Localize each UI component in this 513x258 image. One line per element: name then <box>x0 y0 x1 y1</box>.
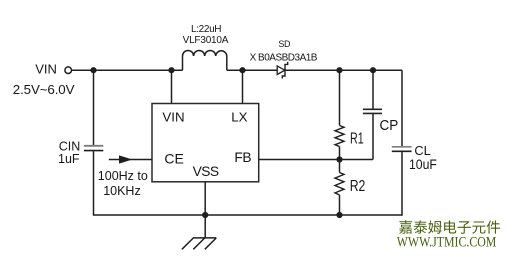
svg-text:SD: SD <box>278 39 291 49</box>
wire bottom rail <box>93 214 402 216</box>
diode SD schottky cathode bar <box>282 62 287 79</box>
svg-text:FB: FB <box>234 150 251 165</box>
junction FB node <box>336 156 342 162</box>
wire CP top lead <box>372 70 374 109</box>
wire left rail down to CIN <box>93 70 95 145</box>
junction CP tap <box>370 67 376 73</box>
inductor L 22uH <box>183 50 227 70</box>
svg-text:1uF: 1uF <box>58 152 80 166</box>
svg-text:R2: R2 <box>350 177 366 195</box>
wire top rail from VIN terminal to inductor <box>72 69 183 71</box>
svg-text:VIN: VIN <box>162 110 184 125</box>
svg-text:10KHz: 10KHz <box>103 184 141 198</box>
svg-text:2.5V~6.0V: 2.5V~6.0V <box>13 82 75 97</box>
wire inductor to diode anode <box>227 69 277 71</box>
svg-text:10uF: 10uF <box>409 156 437 172</box>
wire CE input <box>109 159 152 161</box>
resistor R1 <box>335 126 344 147</box>
wire FB to divider node <box>259 159 373 161</box>
wire IC VIN pin <box>171 70 173 103</box>
wire R2 bottom lead <box>339 195 341 215</box>
wire R1 top lead <box>339 70 341 125</box>
svg-text:LX: LX <box>231 110 247 125</box>
diode SD anode triangle <box>277 66 285 75</box>
svg-text:WWW.JTMIC.COM: WWW.JTMIC.COM <box>397 233 497 250</box>
junction VSS bottom rail <box>202 212 208 218</box>
wire CIN to bottom rail <box>93 151 95 215</box>
capacitor CP plates <box>363 109 382 113</box>
junction IC VIN tap <box>168 67 174 73</box>
wire R1 bottom lead <box>339 147 341 173</box>
ground <box>182 238 216 249</box>
svg-text:R1: R1 <box>350 129 364 146</box>
wire diode cathode to output corner <box>285 69 402 71</box>
arrow CE signal <box>119 155 133 163</box>
capacitor CL top plate <box>392 146 412 148</box>
resistor R2 <box>335 173 344 196</box>
wire CP bottom lead <box>372 114 374 160</box>
wire CL to bottom rail <box>401 152 403 216</box>
svg-text:CE: CE <box>164 150 183 166</box>
junction R1 tap <box>336 67 342 73</box>
svg-text:L:22uH: L:22uH <box>191 24 221 35</box>
watermark chinese text 嘉泰姆电子元件 <box>399 220 500 234</box>
svg-text:VIN: VIN <box>35 62 57 77</box>
capacitor CL bottom plate <box>392 150 412 152</box>
junction CIN tap <box>90 67 96 73</box>
op-amp U1 regulator IC box <box>152 104 259 182</box>
junction R2 to bottom rail <box>336 212 342 218</box>
svg-text:VSS: VSS <box>193 164 219 179</box>
junction LX tap <box>239 67 245 73</box>
capacitor CIN bottom plate <box>84 150 103 152</box>
wire IC LX pin <box>242 70 244 103</box>
node VIN input terminal <box>65 67 72 74</box>
capacitor CIN top plate <box>84 145 103 147</box>
svg-text:CP: CP <box>380 118 399 135</box>
svg-text:X B0ASBD3A1B: X B0ASBD3A1B <box>250 52 318 63</box>
svg-text:100Hz to: 100Hz to <box>98 169 148 183</box>
svg-text:VLF3010A: VLF3010A <box>183 35 229 46</box>
wire output rail down to CL <box>401 70 403 146</box>
wire VSS to ground <box>204 182 206 238</box>
